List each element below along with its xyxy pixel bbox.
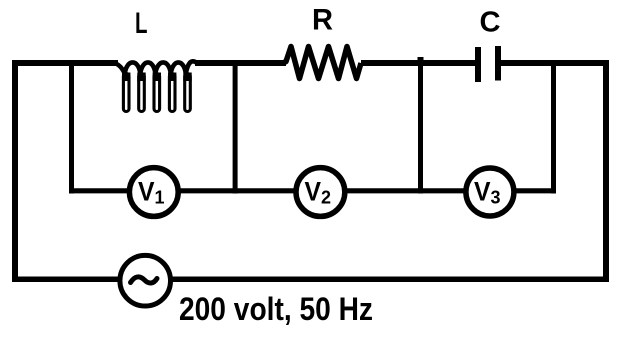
svg-text:C: C: [480, 6, 501, 38]
AC source sine symbol: [131, 277, 158, 283]
resistor R (zigzag): [283, 47, 361, 79]
wire: branch vertical at node B (between L and R): [233, 60, 238, 194]
AC source circle: [120, 255, 171, 306]
inductor L hanging loop 5: [185, 74, 191, 112]
capacitor C left plate: [475, 47, 481, 82]
node: junction nub at top of node C branch: [418, 57, 424, 62]
wire: branch vertical at node A (left of L): [69, 60, 74, 194]
wire: bottom horizontal, right of source: [171, 276, 609, 282]
voltmeter V1 circle: [129, 168, 178, 217]
wire: top horizontal, capacitor to right corner: [501, 60, 609, 66]
wire: right vertical of outer loop: [603, 60, 609, 282]
inductor L hanging loop 3: [154, 74, 160, 112]
svg-text:R: R: [312, 4, 333, 37]
wire: voltmeter row horizontal: [69, 188, 556, 193]
voltmeter V3 circle: [466, 168, 514, 216]
inductor L loop-top solid leg at x=156.8: [153, 73, 161, 82]
wire: top horizontal, inductor to resistor: [195, 60, 286, 66]
inductor L (coil humps): [112, 61, 197, 73]
inductor L hanging loop 2: [139, 74, 145, 112]
svg-text:200 volt, 50 Hz: 200 volt, 50 Hz: [179, 291, 373, 327]
inductor L loop-top solid leg at x=172.2: [168, 73, 176, 82]
capacitor C right plate: [495, 46, 501, 81]
voltmeter V2 circle: [296, 168, 345, 217]
inductor L hanging loop 1: [123, 74, 129, 112]
inductor L loop-top solid leg at x=141.5: [137, 73, 145, 82]
svg-text:L: L: [135, 7, 148, 40]
wire: branch vertical at node D (right of C): [551, 60, 556, 194]
inductor L loop-top solid leg at x=187.5: [183, 73, 191, 82]
wire: top horizontal, left segment to inductor: [12, 60, 118, 66]
wire: branch vertical at node C (between R and C): [418, 60, 423, 194]
wire: left vertical of outer loop: [12, 60, 18, 282]
inductor L hanging loop 4: [169, 74, 175, 112]
inductor L loop-top solid leg at x=126.2: [122, 73, 130, 82]
wire: bottom horizontal, left of source: [12, 276, 120, 282]
wire: top horizontal, resistor to capacitor: [361, 60, 475, 66]
